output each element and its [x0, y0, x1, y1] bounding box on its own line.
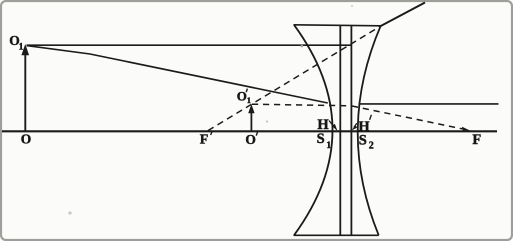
dashed horizontal extension to image head: [252, 104, 352, 106]
principal plane H: [339, 25, 341, 235]
svg-text:S: S: [359, 133, 367, 149]
svg-text:F: F: [472, 132, 481, 148]
image arrowhead: [248, 104, 254, 113]
lens left concave surface S1: [294, 25, 333, 236]
refracted diverging ray (solid, upper right): [381, 3, 425, 27]
ray 2: ray from O1 aimed at F, to left lens surface: [27, 46, 328, 103]
optical axis: [2, 130, 497, 132]
svg-text:O: O: [21, 132, 32, 147]
svg-text:1: 1: [19, 43, 24, 53]
svg-text:O: O: [245, 132, 256, 147]
arrowhead on dashed ray at F: [462, 127, 472, 132]
svg-text:O: O: [237, 89, 247, 104]
svg-text:1: 1: [326, 141, 331, 151]
dashed backward extension through F': [208, 26, 381, 131]
lens bottom edge: [294, 234, 379, 236]
svg-text:F: F: [200, 132, 209, 147]
svg-text:S: S: [317, 131, 325, 147]
svg-text:1: 1: [247, 95, 251, 105]
object arrow shaft OO1: [24, 52, 26, 131]
object arrowhead: [21, 44, 29, 55]
image arrow shaft: [250, 111, 252, 131]
svg-text:2: 2: [369, 140, 374, 151]
principal plane H': [350, 25, 352, 235]
dashed continuation toward F: [352, 106, 464, 129]
faint scan speckles: [301, 45, 304, 48]
ray 1: parallel ray from O1 to H' plane: [27, 44, 352, 46]
lens right concave surface S2: [358, 26, 381, 236]
emergent horizontal ray right of lens: [359, 103, 499, 105]
lens top edge: [294, 25, 381, 26]
